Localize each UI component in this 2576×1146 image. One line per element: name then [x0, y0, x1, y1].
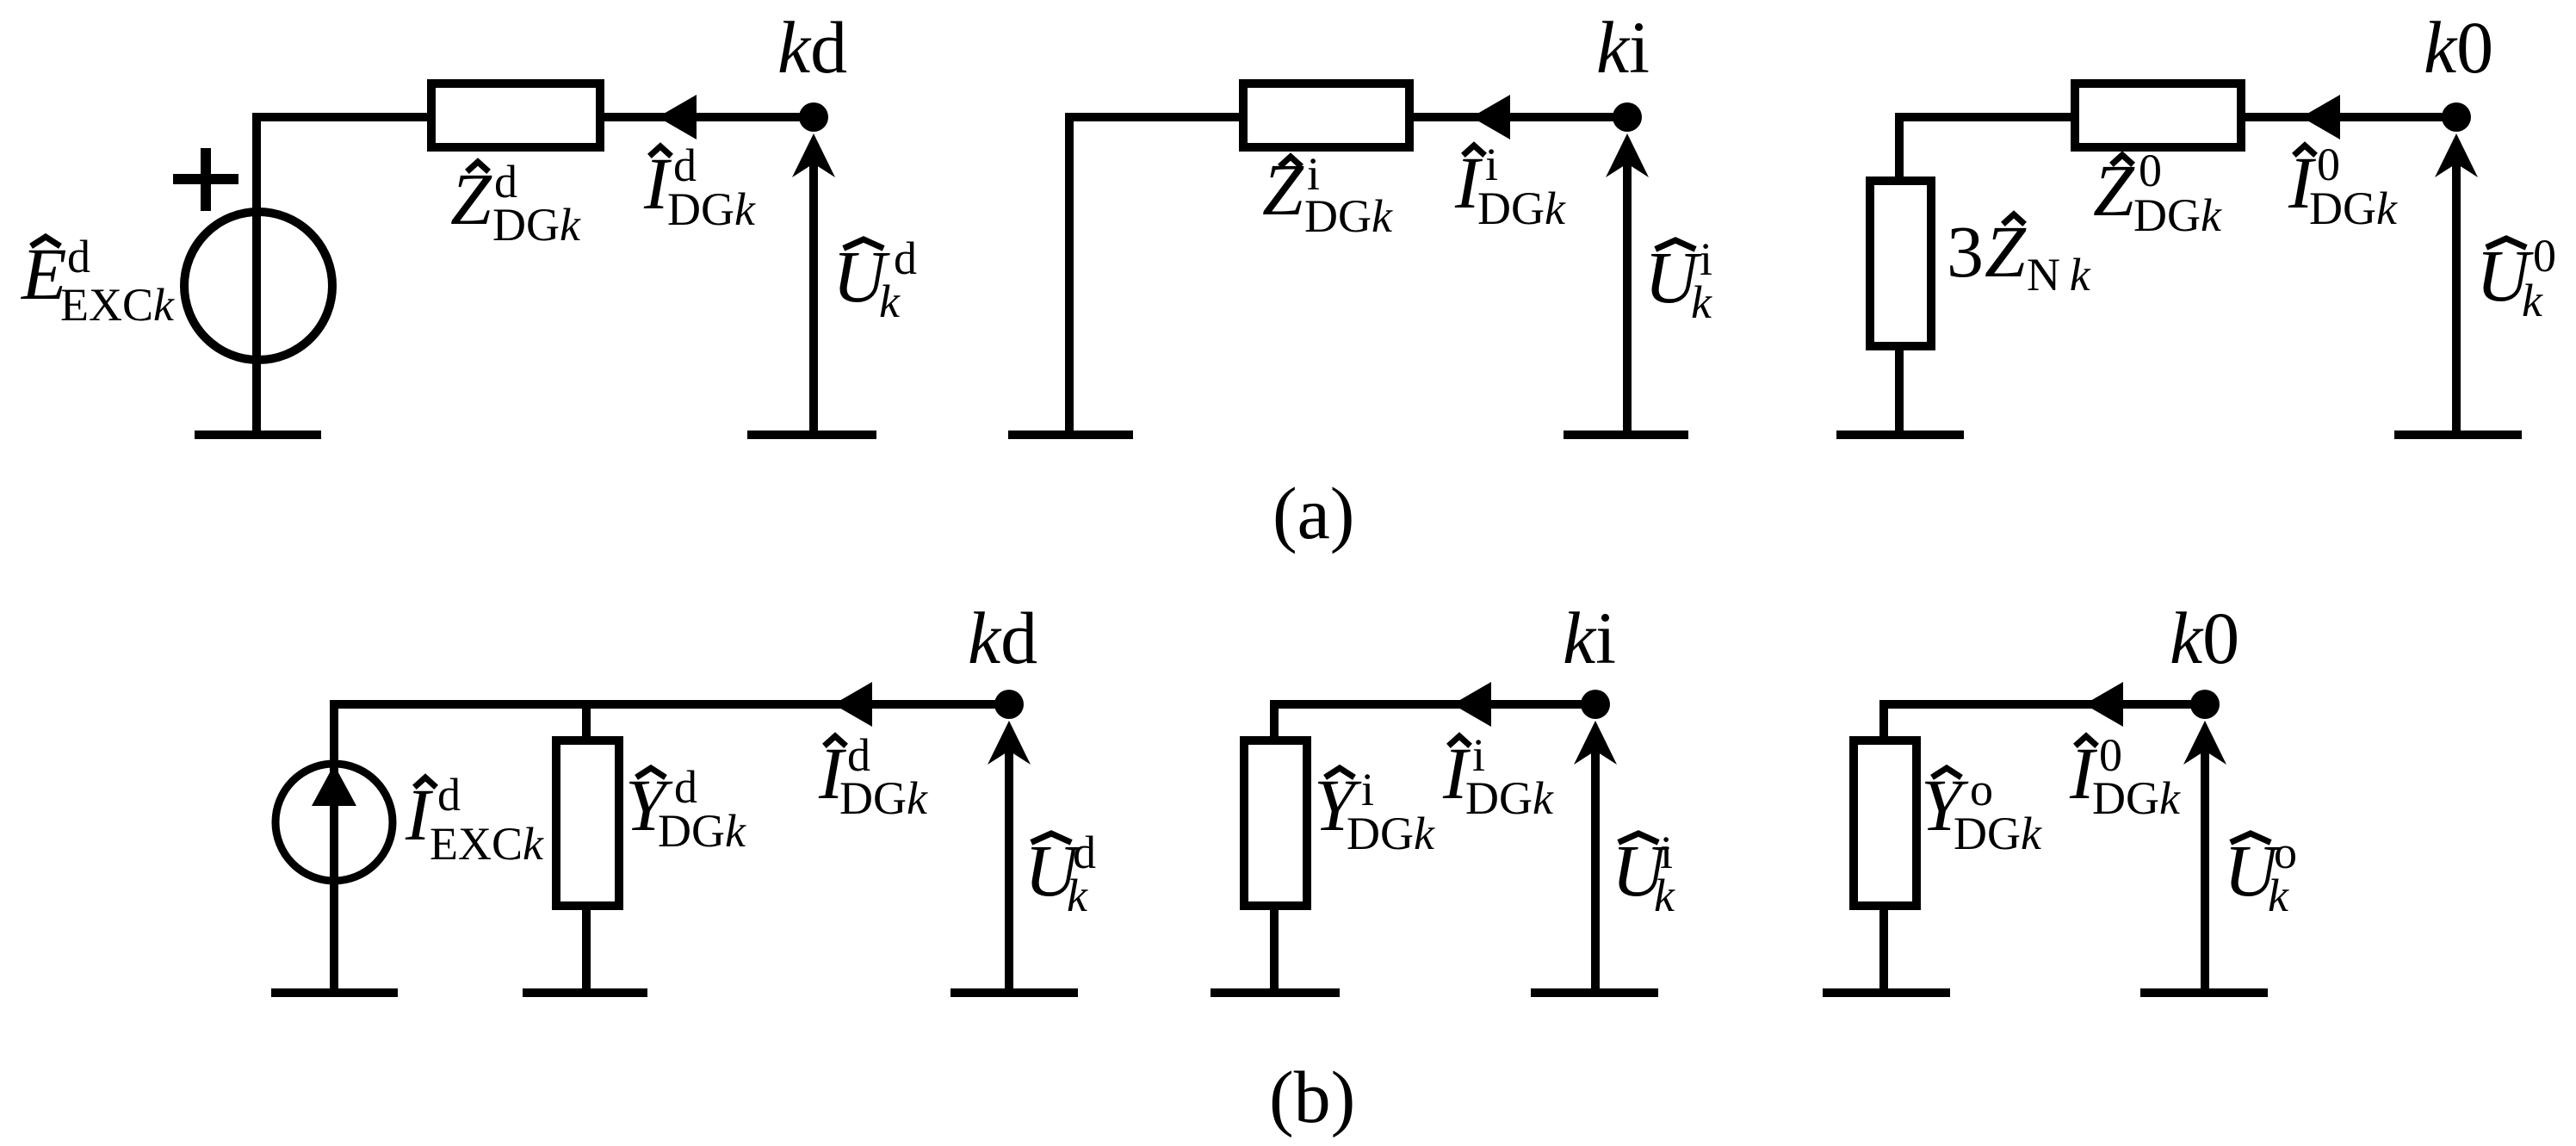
- ground: b3: [1823, 988, 1950, 997]
- ground: node ki b2: [1531, 988, 1658, 997]
- label Y^d_DGk: [625, 761, 746, 857]
- voltage arrow U^i_k (b2): [1574, 721, 1617, 993]
- label I^0_DGk (b3): [2069, 729, 2181, 824]
- resistor Z^d_DGk: [431, 84, 600, 147]
- resistor Y^i_DGk: [1244, 740, 1307, 906]
- ground: source a1: [195, 431, 321, 439]
- svg-text:k: k: [1654, 870, 1675, 921]
- resistor Y^d_DGk: [556, 740, 619, 906]
- svg-text:d: d: [67, 231, 90, 282]
- label I^d_EXCk: [405, 769, 544, 870]
- ground: admittance b1: [523, 988, 647, 997]
- svg-text:EXCk: EXCk: [430, 818, 544, 870]
- svg-text:DGk: DGk: [2309, 183, 2398, 234]
- ground: b2: [1211, 988, 1340, 997]
- node kd (a): [799, 102, 828, 132]
- wire: admittance stem top b1: [582, 704, 591, 740]
- label U^0_k (a3): [2476, 230, 2556, 326]
- label I^0_DGk: [2288, 139, 2398, 234]
- plus polarity mark: [173, 148, 238, 211]
- node ki (a): [1613, 102, 1642, 132]
- svg-text:kd: kd: [777, 6, 847, 89]
- wire: admittance stem top b2: [1270, 700, 1279, 740]
- svg-text:N k: N k: [2027, 249, 2091, 300]
- svg-text:DGk: DGk: [2092, 772, 2181, 824]
- svg-text:kd: kd: [968, 597, 1037, 679]
- voltage source E^d_EXCk circle: [184, 212, 332, 360]
- current arrowhead I^0_DGk (b3): [2084, 682, 2123, 727]
- wire: left vertical wire a3: [1895, 113, 1904, 181]
- svg-text:DGk: DGk: [667, 183, 756, 235]
- svg-text:DGk: DGk: [1477, 183, 1566, 234]
- label U^i_k (a2): [1644, 233, 1712, 328]
- svg-text:DGk: DGk: [1465, 772, 1554, 824]
- svg-text:k: k: [1691, 276, 1712, 328]
- voltage arrow U^0_k (a3): [2435, 133, 2478, 435]
- wire: top horizontal wire a3: [1895, 113, 2456, 121]
- node kd (b): [994, 690, 1024, 719]
- wire: admittance stem bottom b3: [1879, 906, 1888, 993]
- svg-text:0: 0: [2533, 230, 2556, 282]
- svg-text:EXCk: EXCk: [60, 279, 175, 331]
- wire: admittance stem bottom b2: [1270, 906, 1279, 993]
- current source arrow: [312, 765, 356, 806]
- wire: top horizontal wire b2: [1270, 700, 1595, 709]
- voltage arrow U^i_k (a2): [1606, 133, 1649, 435]
- resistor 3Z_Nk (vertical): [1870, 181, 1931, 346]
- label U^i_k (b2): [1612, 827, 1675, 921]
- voltage arrow U^d_k (a1): [792, 133, 835, 435]
- node ki (b): [1581, 690, 1610, 719]
- current arrowhead I^i_DGk: [1471, 95, 1510, 139]
- label 3Z_Nk: [1947, 210, 2091, 300]
- svg-text:DGk: DGk: [1304, 190, 1393, 242]
- label Z^d_DGk: [450, 156, 581, 251]
- svg-text:d: d: [437, 769, 461, 821]
- label Y^o_DGk: [1921, 764, 2042, 859]
- wire: top horizontal wire b1: [330, 700, 1009, 709]
- svg-text:k: k: [1067, 870, 1088, 921]
- wire: admittance stem top b3: [1879, 700, 1888, 740]
- svg-text:DGk: DGk: [492, 199, 581, 251]
- svg-text:DGk: DGk: [1954, 808, 2042, 859]
- svg-text:k0: k0: [2424, 6, 2493, 89]
- ground: node k0 a3: [2394, 431, 2522, 439]
- svg-text:DGk: DGk: [1347, 808, 1435, 859]
- svg-text:DGk: DGk: [839, 772, 928, 824]
- ground: node k0 b3: [2140, 988, 2268, 997]
- node k0 (a): [2442, 102, 2471, 132]
- current arrowhead I^d_DGk: [658, 95, 697, 139]
- current arrowhead I^0_DGk: [2301, 95, 2340, 139]
- label Y^i_DGk: [1314, 764, 1435, 859]
- label Z^i_DGk: [1262, 148, 1393, 242]
- svg-text:DGk: DGk: [658, 805, 746, 857]
- resistor Z^0_DGk: [2075, 84, 2241, 147]
- label E^d_EXCk: [20, 231, 175, 331]
- label I^i_DGk: [1454, 139, 1566, 234]
- label U^o_k (b3): [2224, 827, 2297, 921]
- current source I^d_EXCk circle: [276, 764, 393, 881]
- resistor Z^i_DGk: [1243, 84, 1409, 147]
- ground: source b1: [271, 988, 398, 997]
- wire: stem below 3Z_Nk: [1895, 346, 1904, 435]
- svg-text:k0: k0: [2170, 597, 2239, 679]
- resistor Y^o_DGk: [1854, 740, 1917, 906]
- svg-text:k: k: [2522, 275, 2543, 326]
- svg-text:k: k: [879, 276, 901, 327]
- voltage arrow U^d_k (b1): [988, 721, 1031, 993]
- svg-text:k: k: [2268, 870, 2289, 921]
- wire: top horizontal wire a1: [252, 113, 814, 121]
- svg-text:(b): (b): [1269, 1056, 1355, 1138]
- label I^i_DGk (b2): [1442, 729, 1554, 824]
- svg-text:DGk: DGk: [2133, 189, 2222, 241]
- label I^d_DGk (b1): [818, 729, 928, 824]
- wire: top horizontal wire a2: [1065, 113, 1627, 121]
- ground: node ki a2: [1564, 431, 1688, 439]
- wire: admittance stem bottom b1: [582, 906, 591, 993]
- label Z^0_DGk: [2093, 145, 2222, 241]
- svg-text:0: 0: [2139, 145, 2162, 196]
- svg-text:ki: ki: [1563, 597, 1616, 679]
- label I^d_DGk: [643, 139, 756, 235]
- label U^d_k (a1): [833, 232, 917, 327]
- svg-text:(a): (a): [1273, 472, 1354, 554]
- svg-text:3: 3: [1947, 210, 1984, 293]
- label U^d_k (b1): [1025, 827, 1096, 921]
- ground: left a3: [1836, 431, 1964, 439]
- wire: left vertical wire a1: [252, 113, 261, 435]
- ground: node kd a1: [747, 431, 876, 439]
- current arrowhead I^i_DGk (b2): [1452, 682, 1491, 727]
- ground: left a2: [1008, 431, 1133, 439]
- node k0 (b): [2190, 690, 2220, 719]
- voltage arrow U^o_k (b3): [2183, 721, 2226, 993]
- wire: source vertical b1: [330, 700, 338, 993]
- wire: left vertical wire a2: [1065, 113, 1074, 435]
- wire: top horizontal wire b3: [1879, 700, 2205, 709]
- svg-text:ki: ki: [1596, 6, 1650, 89]
- ground: node kd b1: [951, 988, 1078, 997]
- current arrowhead I^d_DGk (b1): [833, 682, 872, 727]
